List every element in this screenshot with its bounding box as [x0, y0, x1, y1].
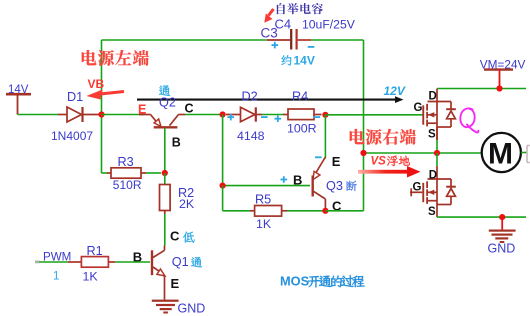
- svg-text:E: E: [332, 154, 341, 169]
- svg-text:4148: 4148: [237, 129, 265, 143]
- polarity - (C4 right): [308, 46, 315, 48]
- resistor R1 1K: [68, 257, 115, 268]
- resistor R3 510R: [107, 168, 161, 178]
- wire: node down to Q3 base rail: [222, 115, 224, 186]
- annotation: tong (on) for Q1: [191, 257, 202, 267]
- junction dot: gate drive node (R4 right): [322, 112, 328, 118]
- label R4: [292, 89, 308, 103]
- ground symbol (Q1 emitter): [152, 300, 179, 314]
- power symbol VM T-bar: [484, 70, 513, 89]
- motor M: [482, 133, 521, 172]
- label + (Q3 base): [281, 176, 288, 183]
- svg-text:VB: VB: [88, 77, 105, 91]
- label C (Q3 collector): [332, 198, 342, 213]
- junction dot: Q3 base rail at left column: [220, 183, 226, 189]
- polarity - (R4 right): [314, 116, 321, 118]
- power symbol: 14V supply T-bar: [6, 94, 31, 114]
- gate stub (lower MOSFET): [410, 188, 422, 196]
- svg-text:R1: R1: [87, 244, 103, 258]
- wire: R1 to Q1 base: [115, 261, 150, 263]
- label G (lower MOSFET): [413, 182, 422, 194]
- svg-text:R5: R5: [255, 193, 271, 207]
- label Q3: [326, 179, 343, 193]
- svg-text:D1: D1: [67, 90, 83, 104]
- wire: VS vertical (cap right plate down to Q3 collector rail): [363, 40, 365, 211]
- svg-text:C: C: [185, 101, 194, 115]
- label R1: [87, 244, 103, 258]
- label GND (left): [178, 301, 206, 315]
- label B (Q2 base): [172, 135, 181, 149]
- wire: Q3 emitter from gate node: [324, 115, 326, 159]
- ground symbol (right): [489, 217, 516, 243]
- label D (lower MOSFET): [429, 170, 437, 182]
- wire: Q3 base rail: [223, 185, 310, 187]
- svg-text:B: B: [293, 172, 302, 187]
- wire: D1 node down to R3: [102, 115, 108, 174]
- svg-text:14V: 14V: [8, 84, 29, 96]
- svg-text:Q1: Q1: [172, 255, 189, 269]
- annotation: MOS turn-on process: [280, 274, 365, 289]
- annotation Q (magenta): [460, 108, 478, 132]
- label E (Q2 emitter, red): [138, 102, 146, 116]
- pin stub: PWM input: [35, 261, 39, 264]
- svg-text:GND: GND: [178, 301, 206, 315]
- label G (upper MOSFET): [414, 102, 423, 114]
- label - (Q3 emitter): [315, 156, 322, 158]
- wire: VS rail to motor: [364, 152, 482, 154]
- svg-text:PWM: PWM: [43, 251, 71, 264]
- label E (Q1 emitter): [171, 276, 180, 291]
- wire: upper MOSFET source lead: [436, 127, 438, 153]
- annotation: tong (on) for Q2: [159, 86, 170, 96]
- label GND (right): [488, 242, 516, 256]
- label B (Q1 base): [133, 249, 142, 264]
- wire: PWM to R1: [39, 261, 68, 263]
- wire: Q2 collector to D2 node: [185, 114, 223, 116]
- label D2: [242, 89, 258, 103]
- wire: Q2 base down to R3/R2 node: [164, 128, 166, 173]
- resistor R4 100R: [283, 109, 322, 120]
- wire: gate drive node to MOSFET gate: [325, 114, 422, 116]
- svg-text:14V: 14V: [294, 53, 315, 67]
- annotation arrow: VS floating: [358, 166, 421, 178]
- label 2K: [179, 197, 195, 211]
- annotation arrow: bootstrap cap: [264, 9, 273, 23]
- wire: top rail to bootstrap capacitor: [102, 39, 267, 41]
- wire: left vertical from D1 node up to bootstrap cap: [101, 40, 103, 115]
- svg-text:M: M: [488, 138, 513, 171]
- label R5: [255, 193, 271, 207]
- annotation: duan (off) for Q3: [347, 181, 357, 191]
- label C (Q2 collector): [185, 101, 194, 115]
- label 1K (R5): [256, 217, 272, 231]
- resistor R2 2K: [160, 173, 171, 246]
- svg-text:E: E: [171, 276, 180, 291]
- svg-text:E: E: [138, 102, 146, 116]
- junction dot: Q3 collector / R5: [322, 208, 328, 214]
- diode D1 1N4007: [58, 107, 99, 122]
- svg-text:1K: 1K: [256, 217, 272, 231]
- label C3: [261, 26, 278, 41]
- mosfet lower (N-channel with body diode): [422, 166, 456, 217]
- label C4: [275, 16, 292, 31]
- svg-text:MOS: MOS: [280, 274, 310, 289]
- transistor Q3 (PNP): [313, 157, 326, 211]
- svg-text:1N4007: 1N4007: [51, 129, 93, 143]
- wire: R5 to Q3 collector node: [287, 210, 325, 212]
- svg-text:1K: 1K: [83, 270, 99, 284]
- svg-text:D: D: [429, 170, 437, 182]
- junction dot: VS at MOSFET source: [434, 150, 440, 156]
- label D1: [67, 90, 83, 104]
- annotation VB: [88, 77, 105, 91]
- svg-text:1: 1: [53, 271, 59, 283]
- svg-text:D2: D2: [242, 89, 258, 103]
- label S (upper MOSFET): [428, 129, 436, 141]
- annotation: yue 14V (about 14V): [281, 53, 314, 67]
- svg-text:Q3: Q3: [326, 179, 343, 193]
- polarity - (D2 cathode): [261, 116, 268, 118]
- label VM=24V: [480, 58, 526, 72]
- svg-text:510R: 510R: [113, 178, 142, 192]
- capacitor C4 10uF/25V: [267, 29, 311, 50]
- transistor Q2 (PNP): [139, 115, 185, 128]
- svg-text:C4: C4: [275, 16, 292, 31]
- annotation arrow: black line VB rail to 12V: [137, 96, 404, 103]
- svg-text:VS: VS: [371, 156, 387, 168]
- polarity + (C4 left): [272, 42, 279, 49]
- label 14V: [8, 84, 29, 96]
- svg-text:Q2: Q2: [159, 95, 176, 109]
- wire: VM rail: [437, 88, 526, 90]
- transistor Q1 (NPN): [152, 246, 165, 300]
- svg-text:G: G: [413, 182, 422, 194]
- junction dot: GND rail: [499, 214, 505, 220]
- resistor R5 1K: [250, 206, 287, 217]
- svg-text:GND: GND: [488, 242, 516, 256]
- svg-text:100R: 100R: [287, 122, 317, 136]
- svg-text:VM=24V: VM=24V: [480, 58, 526, 72]
- svg-text:S: S: [428, 129, 436, 141]
- svg-text:D: D: [429, 91, 437, 103]
- polarity + (D2 anode): [228, 114, 235, 121]
- label 10uF/25V: [302, 18, 356, 32]
- wire: Q3 collector node to VS vertical: [325, 210, 363, 212]
- annotation: zijudianrong (bootstrap capacitor): [277, 3, 323, 14]
- svg-text:R3: R3: [118, 155, 134, 169]
- label C (Q1 collector): [170, 228, 180, 243]
- label Q1: [172, 255, 189, 269]
- label R2: [178, 186, 194, 200]
- junction dot: R3/R2/Q2 base node: [162, 170, 168, 176]
- svg-text:S: S: [428, 206, 436, 218]
- label 510R: [113, 178, 142, 192]
- wire: D2 cathode to R4: [262, 114, 283, 116]
- annotation: VS fudi (VS floating ground): [371, 156, 410, 168]
- annotation: di (low) at Q1 collector: [183, 232, 195, 243]
- polarity + (R4 left): [275, 115, 282, 122]
- diode D2 4148: [226, 107, 262, 121]
- mosfet Q upper (N-channel with body diode): [422, 89, 456, 141]
- junction dot: VM rail: [496, 85, 502, 91]
- svg-text:12V: 12V: [384, 84, 406, 98]
- wire: 14V to D1 anode: [18, 114, 59, 116]
- label B (Q3 base): [293, 172, 302, 187]
- label Q2: [159, 95, 176, 109]
- label 1N4007: [51, 129, 93, 143]
- wire: lower MOSFET source to GND rail: [437, 216, 526, 218]
- annotation 12V: [384, 84, 406, 98]
- wire: node VB to Q2 emitter: [102, 114, 145, 116]
- junction dot: Q2 collector / D2 anode: [220, 111, 226, 117]
- annotation: dianyuan youduan (power right end): [350, 129, 416, 145]
- label S (lower MOSFET): [428, 206, 436, 218]
- svg-text:B: B: [172, 135, 181, 149]
- label D (upper MOSFET): [429, 91, 437, 103]
- wire: VS to lower MOSFET drain: [436, 153, 438, 166]
- label 1 (net): [53, 271, 59, 283]
- svg-text:G: G: [414, 102, 423, 114]
- svg-text:R4: R4: [292, 89, 308, 103]
- svg-text:2K: 2K: [179, 197, 195, 211]
- label R3: [118, 155, 134, 169]
- annotation arrow: VB: [87, 90, 125, 100]
- svg-text:C: C: [170, 228, 180, 243]
- label 4148: [237, 129, 265, 143]
- junction dot: node VB (D1 cathode): [98, 111, 104, 117]
- wire: left column down to R5: [223, 186, 250, 211]
- junction dot: VS at cap column: [360, 150, 366, 156]
- annotation: dianyuan zuoduan (power left end): [82, 50, 149, 66]
- label 100R: [287, 122, 317, 136]
- wire: motor right lead: [521, 152, 527, 154]
- wire: capacitor to VS vertical: [311, 39, 364, 41]
- label E (Q3 emitter): [332, 154, 341, 169]
- svg-text:10uF/25V: 10uF/25V: [302, 18, 356, 32]
- label 1K (R1): [83, 270, 99, 284]
- connector bracket (right edge): [527, 146, 530, 163]
- label PWM: [43, 251, 71, 264]
